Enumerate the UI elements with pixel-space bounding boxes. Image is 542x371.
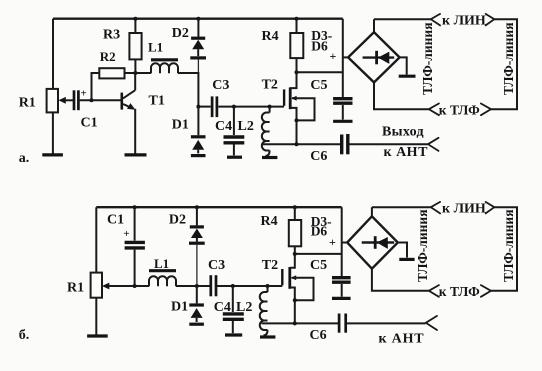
svg-text:D1: D1: [171, 299, 188, 314]
svg-text:R4: R4: [262, 29, 279, 44]
inductor L1: [151, 60, 178, 74]
wire line bracket right b: [491, 207, 517, 291]
wire R1b top lead: [95, 207, 97, 272]
svg-text:D1: D1: [172, 117, 189, 132]
ground D1 b: [189, 323, 204, 326]
capacitor C3 b: [211, 275, 216, 296]
svg-text:C1: C1: [107, 213, 124, 228]
svg-text:L1: L1: [154, 256, 169, 271]
svg-text:C3: C3: [208, 258, 225, 273]
wire supply rail a: [53, 18, 343, 20]
capacitor C4 b: [223, 314, 244, 333]
wire collector node to L1: [135, 72, 151, 74]
terminal arrow k LIN right b: [486, 202, 495, 214]
wire source to C6 b: [295, 322, 338, 324]
svg-text:к ЛИН: к ЛИН: [442, 202, 486, 217]
svg-text:R1: R1: [67, 281, 84, 296]
wire node up to R2: [92, 73, 100, 100]
node rail R4: [295, 17, 299, 21]
svg-text:C6: C6: [310, 328, 327, 343]
node main wire D1: [196, 105, 200, 109]
svg-text:к ТЛФ: к ТЛФ: [439, 284, 480, 299]
svg-text:к АНТ: к АНТ: [379, 332, 425, 347]
svg-text:R2: R2: [100, 49, 116, 64]
wire R1 bottom lead: [52, 112, 54, 153]
node rail R3: [133, 17, 137, 21]
node rail D2 b: [195, 205, 199, 209]
wire C1 to base node: [80, 99, 121, 101]
svg-text:+: +: [330, 49, 337, 63]
ground D1: [191, 154, 206, 157]
diode D2 b: [189, 207, 205, 285]
wire R4 bottom lead: [296, 58, 298, 72]
node source junction b: [293, 321, 297, 325]
wire L2b top lead: [267, 286, 269, 292]
node D1b junction: [195, 284, 199, 288]
wire line out bottom: [374, 82, 429, 109]
inductor L2 b: [260, 292, 268, 336]
resistor R1 (potentiometer): [47, 89, 66, 113]
terminal arrow k LIN left b: [431, 202, 440, 214]
svg-text:C4: C4: [214, 300, 231, 315]
wire line out top b: [372, 206, 431, 208]
ground C5 b: [332, 297, 351, 300]
ground R1 b: [87, 334, 108, 337]
ground bridge b: [399, 258, 414, 261]
wire R4b bottom lead: [294, 246, 296, 254]
svg-text:T2: T2: [262, 77, 278, 92]
svg-text:+: +: [81, 88, 87, 100]
svg-text:C6: C6: [310, 149, 327, 164]
wire line out top: [374, 18, 431, 20]
node L2b junction: [266, 284, 270, 288]
wire R4b top lead: [294, 207, 296, 220]
wire bridge right to ground b: [398, 243, 407, 258]
resistor R4: [290, 33, 303, 58]
svg-text:б.: б.: [19, 328, 30, 343]
diode D1 b: [189, 305, 204, 322]
wire source to C6: [297, 143, 341, 145]
wire R3 bottom lead: [134, 59, 136, 73]
wire rail down to C5 b: [341, 207, 343, 276]
wire bridge right to ground: [400, 57, 407, 74]
wire L2b tap to source: [262, 322, 295, 324]
wire R3 top lead: [134, 19, 136, 33]
svg-text:D6: D6: [311, 224, 328, 239]
svg-text:C4: C4: [215, 119, 232, 134]
ground C5: [333, 120, 352, 123]
wire bridge top stub: [373, 19, 375, 32]
capacitor C3: [212, 96, 217, 117]
bridge rectifier D3-D6: [348, 32, 400, 82]
wire line bracket right: [491, 19, 517, 109]
svg-text:к ТЛФ: к ТЛФ: [439, 103, 480, 118]
node rail R4 b: [293, 205, 297, 209]
capacitor C4: [224, 137, 245, 155]
svg-text:ТЛФ-линия: ТЛФ-линия: [501, 22, 516, 95]
wire bridge left stub b: [342, 242, 348, 244]
label D3-D6 b: [311, 214, 332, 239]
wire R1b bottom lead: [95, 298, 97, 335]
diode D2: [190, 19, 206, 72]
svg-text:C3: C3: [212, 78, 229, 93]
node substrate junction: [295, 118, 299, 122]
transistor T1: [122, 73, 136, 110]
svg-text:к АНТ: к АНТ: [384, 145, 429, 160]
terminal arrow k ANT: [428, 138, 439, 151]
terminal arrow k TLF left b: [429, 285, 439, 297]
resistor R1 (potentiometer) b: [91, 273, 110, 298]
svg-text:ТЛФ-линия: ТЛФ-линия: [415, 209, 430, 282]
node C4 junction: [232, 105, 236, 109]
wire L1b to C3b: [176, 285, 210, 287]
transistor T2: [284, 72, 314, 144]
wire D1 lead: [197, 107, 199, 136]
node collector junction: [133, 71, 137, 75]
terminal arrow k TLF right b: [481, 285, 491, 297]
wire wiper to C1: [65, 99, 73, 101]
ground L2 b: [260, 335, 275, 338]
ground L2: [262, 156, 277, 159]
wire D1b lead: [196, 286, 198, 303]
svg-text:к ЛИН: к ЛИН: [442, 14, 486, 29]
wire main to C3: [198, 106, 210, 108]
terminal arrow k LIN right: [486, 14, 495, 26]
svg-text:R4: R4: [261, 214, 278, 229]
terminal arrow k ANT b: [426, 316, 437, 330]
svg-text:D2: D2: [172, 26, 189, 41]
wire C6b to antenna: [347, 322, 426, 324]
svg-text:Выход: Выход: [382, 125, 424, 140]
node C1b junction: [133, 284, 137, 288]
wire bridge top stub b: [371, 207, 373, 216]
wire wiper to L1 b: [109, 285, 150, 287]
svg-text:D2: D2: [169, 213, 186, 228]
wire C3b to gate: [217, 285, 283, 287]
capacitor C1: [74, 88, 87, 111]
capacitor C1 b: [123, 207, 145, 286]
wire T1 emitter lead: [134, 109, 136, 154]
svg-text:+: +: [123, 228, 129, 240]
svg-text:T2: T2: [262, 258, 278, 273]
svg-text:C5: C5: [310, 78, 327, 93]
node drain junction: [295, 70, 299, 74]
wire R4 top lead: [296, 19, 298, 33]
inductor L2: [262, 113, 270, 157]
svg-text:R1: R1: [19, 96, 36, 111]
svg-text:C5: C5: [310, 258, 327, 273]
capacitor C5: [333, 99, 352, 120]
svg-text:+: +: [329, 235, 336, 249]
node source junction: [295, 142, 299, 146]
wire supply rail b: [96, 206, 341, 208]
terminal arrow k TLF left: [429, 104, 439, 116]
ground C4: [227, 156, 242, 159]
label D3-D6: [311, 28, 332, 54]
wire line out bottom b: [372, 269, 429, 291]
node rail D2: [196, 17, 200, 21]
wire C6 to antenna: [350, 143, 429, 145]
resistor R4 b: [289, 220, 301, 246]
svg-text:T1: T1: [149, 94, 165, 109]
wire C3 to gate: [218, 106, 284, 108]
wire L2 top lead: [269, 107, 271, 113]
svg-text:L2: L2: [238, 119, 254, 134]
diode D1: [191, 137, 206, 154]
wire C4 lead: [233, 107, 235, 135]
wire C4b lead: [232, 286, 234, 312]
transistor T2 b: [282, 254, 313, 324]
bridge rectifier D3-D6 b: [347, 216, 398, 268]
svg-text:а.: а.: [19, 151, 30, 166]
svg-text:R3: R3: [103, 27, 120, 42]
node substrate junction b: [293, 298, 297, 302]
wire drain to C5 column: [297, 71, 343, 73]
wire bridge left stub: [343, 56, 348, 58]
terminal arrow k TLF right: [481, 104, 491, 116]
svg-text:D6: D6: [311, 39, 328, 54]
wire R2 to collector node: [125, 72, 136, 74]
node drain junction b: [293, 252, 297, 256]
svg-text:ТЛФ-линия: ТЛФ-линия: [420, 22, 435, 95]
node C4b junction: [231, 284, 235, 288]
wire rail down to C5: [342, 19, 344, 97]
wire T1 base lead: [120, 99, 123, 101]
ground C4 b: [225, 333, 242, 336]
ground R1: [42, 153, 63, 156]
wire L1 to C3 corner: [178, 73, 198, 107]
capacitor C6: [342, 134, 348, 154]
wire drain to C5 column b: [295, 253, 342, 255]
ground T1: [125, 153, 147, 156]
node L2 junction: [268, 105, 272, 109]
capacitor C5 b: [332, 278, 351, 297]
svg-text:L2: L2: [236, 300, 252, 315]
svg-text:C1: C1: [81, 116, 98, 131]
capacitor C6 b: [339, 314, 346, 333]
inductor L1 b: [149, 271, 176, 287]
terminal arrow k LIN left: [431, 14, 440, 26]
ground bridge: [399, 75, 416, 78]
resistor R2: [99, 68, 124, 78]
wire L2 tap to source: [262, 143, 297, 145]
node base junction: [90, 98, 94, 102]
node rail C1 b: [133, 205, 137, 209]
wire R1 top lead: [52, 19, 54, 89]
svg-text:ТЛФ-линия: ТЛФ-линия: [501, 209, 516, 282]
resistor R3: [129, 33, 141, 59]
svg-text:L1: L1: [148, 39, 163, 54]
